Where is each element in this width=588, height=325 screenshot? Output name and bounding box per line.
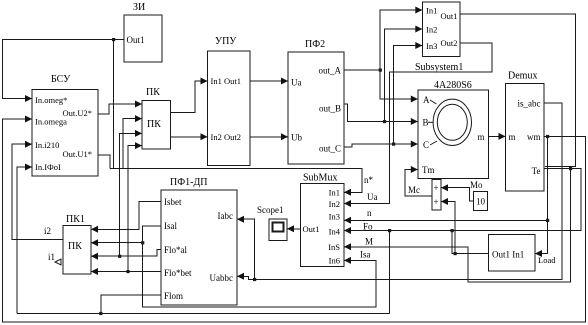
wire Demux Te line to SubMux In4 Fo — [344, 169, 581, 231]
wire riser to PF1-DP Iabc — [237, 219, 255, 279]
svg-text:+: + — [434, 183, 439, 193]
wire PF1-DP Isal net to PK1 In2 and SubMux In6 Isa — [143, 226, 376, 307]
wire n* riser from ZI junction — [113, 40, 115, 169]
svg-text:In.omega: In.omega — [35, 117, 67, 127]
svg-text:ЗИ: ЗИ — [133, 2, 145, 13]
svg-text:out_B: out_B — [319, 104, 341, 114]
junction dot Fo line Flom riser — [388, 229, 391, 232]
junction dot Te line M riser — [569, 167, 572, 170]
svg-text:+: + — [434, 197, 439, 207]
motor stator ellipse — [433, 99, 471, 145]
wire Subsystem Out1 — [459, 14, 575, 167]
arrowhead SubMux In5 — [344, 243, 351, 250]
wire wm riser down to Load In1 — [535, 136, 548, 253]
svg-text:ПК: ПК — [68, 241, 82, 252]
motor lead B — [428, 121, 433, 123]
junction dot wm port — [546, 135, 549, 138]
svg-text:Flo*al: Flo*al — [164, 245, 188, 255]
block PK (ПК coordinate converter) — [142, 101, 171, 150]
svg-text:ПК: ПК — [147, 119, 161, 130]
wire out_A drop to motor A — [380, 70, 418, 99]
svg-text:Out2: Out2 — [441, 38, 458, 48]
arrowhead SubMux In6 — [344, 257, 351, 264]
svg-text:is_abc: is_abc — [518, 99, 541, 109]
svg-text:ПК: ПК — [146, 87, 160, 98]
wire PF1-DP Flo*bet to PK1 In4 — [91, 271, 161, 273]
arrowhead PK1 In1 — [91, 226, 98, 233]
motor rotor ellipse — [437, 104, 467, 140]
svg-text:Mo: Mo — [470, 180, 483, 190]
junction dot out_A — [379, 69, 382, 72]
arrowhead motor A — [411, 96, 418, 103]
arrowhead PK In4 — [135, 142, 142, 149]
wire sum out to motor Tm — [405, 170, 432, 197]
wire UPU Out2 to PF2 Ub — [250, 136, 288, 138]
svg-text:A: A — [423, 95, 430, 105]
arrowhead PK In3 — [135, 130, 142, 137]
wire Demux wm long feedback to BSU In.omega — [3, 119, 586, 322]
svg-text:Iabc: Iabc — [218, 211, 234, 221]
svg-text:In.i210: In.i210 — [35, 140, 59, 150]
svg-text:Flom: Flom — [164, 291, 183, 301]
svg-text:Out.U2*: Out.U2* — [62, 108, 92, 118]
block Load — [489, 235, 536, 272]
svg-text:C: C — [423, 140, 429, 150]
wire PF1-DP Isbet to PK1 In1 — [91, 202, 161, 230]
arrowhead BSU In.omega — [25, 116, 32, 123]
svg-text:In1: In1 — [329, 188, 340, 198]
block PK1 (ПК1) — [63, 225, 91, 273]
block ZI (ЗИ ramp source) — [124, 15, 162, 62]
junction dot ZI line — [112, 38, 115, 41]
svg-text:Isal: Isal — [164, 221, 177, 231]
svg-text:wm: wm — [527, 132, 541, 142]
svg-text:M: M — [365, 237, 373, 247]
junction dot is_abc Iabc riser — [253, 278, 256, 281]
arrowhead Scope1 in — [287, 225, 294, 232]
svg-text:ПФ1-ДП: ПФ1-ДП — [170, 177, 208, 188]
svg-text:m: m — [509, 132, 516, 142]
wire Flo*al riser to PK In3 — [120, 133, 142, 256]
wire riser to PK In2 — [123, 119, 142, 169]
svg-text:10: 10 — [476, 197, 486, 207]
svg-text:Out.U1*: Out.U1* — [62, 149, 92, 159]
svg-text:m: m — [477, 132, 484, 142]
junction dot Fo line Load riser — [451, 229, 454, 232]
unconnected port i1 of PK1 — [55, 259, 61, 265]
wire n line to SubMux In3 — [344, 219, 548, 221]
svg-text:InS: InS — [328, 242, 340, 252]
arrowhead SubMux In1 — [344, 189, 351, 196]
svg-text:out_A: out_A — [319, 66, 342, 76]
wire PF2 out_C to motor C — [344, 144, 418, 147]
arrowhead PF1-DP Uabbc — [237, 273, 244, 280]
arrowhead PF2 Ua — [281, 78, 288, 85]
arrowhead sum in1 — [441, 184, 448, 191]
motor lead A — [430, 100, 437, 104]
arrowhead PK1 In2 — [91, 239, 98, 246]
wire Demux is_abc feedback — [237, 103, 562, 279]
wire PF1-DP Flo*al to PK1 In3 — [91, 250, 161, 257]
junction dot Flo*bet line — [126, 270, 129, 273]
block motor 4A280S6 — [418, 90, 489, 178]
arrowhead BSU In.i210 — [25, 141, 32, 148]
svg-text:ПФ2: ПФ2 — [305, 39, 325, 50]
wire out_A riser to Subsystem In1 — [380, 10, 422, 70]
wire PF2 out_B to motor B — [344, 104, 418, 122]
junction dot Load line sum riser — [454, 252, 457, 255]
wire PK Out1 to UPU In1 — [171, 81, 208, 113]
svg-text:Isa: Isa — [360, 250, 371, 260]
arrowhead Subsystem In1 — [415, 7, 422, 14]
svg-text:In2: In2 — [329, 199, 340, 209]
arrowhead SubMux In2 — [344, 200, 351, 207]
wire Te branch to SubMux In5 M — [344, 169, 571, 283]
junction dot Flom line — [99, 312, 102, 315]
wire Load Out1 — [452, 231, 489, 254]
wire Load riser to sum — [441, 202, 455, 254]
svg-text:n*: n* — [364, 175, 374, 185]
arrowhead UPU In2 — [201, 133, 208, 140]
wire PF2 out_A — [344, 69, 380, 71]
svg-text:n: n — [367, 208, 372, 218]
svg-text:In3: In3 — [329, 212, 340, 222]
wire PK1 i2 out to BSU In.i210 — [12, 144, 63, 239]
junction dot Isal line — [141, 241, 144, 244]
arrowhead sum in2 — [441, 198, 448, 205]
svg-text:SubMux: SubMux — [303, 173, 337, 184]
svg-text:In2: In2 — [426, 25, 437, 35]
wire ZI Out1 to BSU In.omeg* — [3, 40, 125, 99]
svg-text:Load: Load — [538, 255, 556, 265]
svg-text:In.IФоI: In.IФоI — [35, 162, 61, 172]
junction dot n line — [546, 219, 549, 222]
svg-text:Out1: Out1 — [441, 11, 458, 21]
block Subsystem1 — [422, 2, 460, 57]
svg-text:Te: Te — [532, 166, 541, 176]
svg-text:In6: In6 — [329, 256, 340, 266]
wire Flom riser to Fo line — [389, 231, 391, 314]
wire out_B riser to Subsystem In2 — [384, 29, 422, 122]
block UPU (УПУ) — [208, 51, 251, 166]
svg-text:Ub: Ub — [291, 133, 302, 143]
block PF2 (ПФ2) — [288, 52, 344, 164]
junction dot out_C — [392, 143, 395, 146]
arrowhead Demux m — [499, 133, 506, 140]
motor lead C — [430, 141, 437, 145]
wire PK Out2 to UPU In2 — [171, 136, 208, 138]
arrowhead UPU In1 — [201, 78, 208, 85]
wire Flom long line — [17, 312, 390, 314]
arrowhead PF1-DP Iabc — [237, 216, 244, 223]
wire Subsystem Out2 return to SubMux In2 Ua — [344, 43, 492, 204]
svg-text:Out1: Out1 — [303, 224, 320, 234]
svg-text:i1: i1 — [48, 252, 55, 262]
wire Flo*bet riser to PK In4 — [128, 146, 142, 272]
svg-text:Subsystem1: Subsystem1 — [415, 62, 463, 73]
junction dot out_B — [383, 120, 386, 123]
svg-text:Scope1: Scope1 — [257, 205, 284, 215]
svg-text:Flo*bet: Flo*bet — [164, 268, 192, 278]
arrowhead PK In2 — [135, 115, 142, 122]
svg-text:i2: i2 — [44, 226, 51, 236]
svg-text:out_C: out_C — [319, 144, 341, 154]
svg-text:In2 Out2: In2 Out2 — [211, 132, 241, 142]
svg-text:Fo: Fo — [363, 222, 373, 232]
wire out_C riser to Subsystem In3 — [394, 46, 423, 145]
svg-text:Out1: Out1 — [127, 35, 145, 45]
block PF1-DP (ПФ1-ДП flux observer) — [161, 190, 237, 305]
arrowhead PK In1 — [135, 101, 142, 108]
arrowhead Load In1 — [535, 250, 542, 257]
svg-text:УПУ: УПУ — [215, 36, 237, 47]
arrowhead motor Tm — [411, 166, 418, 173]
svg-text:B: B — [423, 118, 429, 128]
svg-text:Uabbc: Uabbc — [210, 273, 234, 283]
arrowhead motor B — [411, 118, 418, 125]
junction dot Flo*al line — [118, 255, 121, 258]
block BSU (БСУ controller) — [32, 90, 98, 177]
svg-text:4A280S6: 4A280S6 — [434, 80, 472, 91]
wire BSU Out.U2* to PK In1 — [98, 104, 142, 114]
arrowhead PK1 In4 — [91, 268, 98, 275]
svg-text:Isbet: Isbet — [164, 197, 182, 207]
wire UPU Out1 to PF2 Ua — [250, 80, 288, 82]
wire SubMux Out1 to Scope1 — [287, 228, 301, 230]
arrowhead PF2 Ub — [281, 133, 288, 140]
svg-text:Mc: Mc — [408, 185, 420, 195]
svg-text:In.omeg*: In.omeg* — [35, 95, 67, 105]
wire PF1-DP Flom drop to Flom line — [101, 295, 161, 313]
arrowhead motor C — [411, 141, 418, 148]
svg-text:In3: In3 — [426, 41, 437, 51]
svg-text:Ua: Ua — [291, 78, 302, 88]
block sum Mc — [432, 179, 441, 210]
wire BSU Out.U1* detour — [98, 155, 110, 169]
svg-text:Out1 In1: Out1 In1 — [492, 250, 524, 260]
svg-text:БСУ: БСУ — [51, 74, 71, 85]
svg-text:In4: In4 — [329, 227, 341, 237]
svg-text:In1: In1 — [426, 6, 437, 16]
arrowhead BSU In.IFoI — [25, 164, 32, 171]
wire n* horizontal line — [110, 169, 362, 193]
wire Flom riser to BSU In.IFoI — [17, 167, 32, 313]
svg-text:Tm: Tm — [422, 165, 435, 175]
svg-text:In1 Out1: In1 Out1 — [211, 76, 241, 86]
svg-text:ПК1: ПК1 — [66, 214, 85, 225]
arrowhead SubMux In3 — [344, 217, 351, 224]
wire Mo 10 to sum — [441, 188, 474, 201]
block Mo constant 10 — [474, 192, 488, 211]
arrowhead Subsystem In3 — [415, 42, 422, 49]
arrowhead PK1 In3 — [91, 253, 98, 260]
svg-text:Ua: Ua — [367, 192, 378, 202]
block SubMux — [301, 184, 345, 267]
block Scope1 — [269, 219, 287, 241]
arrowhead SubMux In4 — [344, 227, 351, 234]
svg-text:Demux: Demux — [508, 71, 537, 82]
arrowhead BSU In.omeg* — [25, 95, 32, 102]
wire motor m to Demux — [488, 135, 505, 137]
arrowhead Subsystem In2 — [415, 26, 422, 33]
block Demux — [506, 84, 545, 191]
